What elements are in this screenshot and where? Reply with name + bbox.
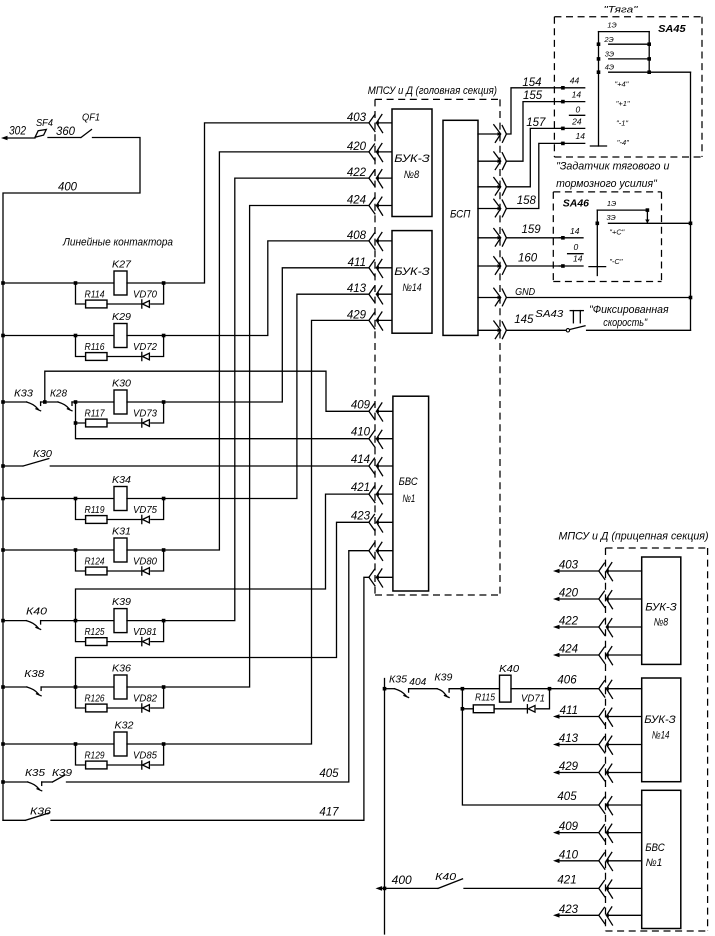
svg-text:414: 414 [351, 454, 370, 466]
connector X2:414 [369, 458, 375, 474]
diode VD80 [141, 567, 143, 575]
wire 404 [409, 688, 438, 690]
svg-text:№8: №8 [654, 617, 668, 629]
svg-text:R114: R114 [85, 290, 105, 301]
wire 413 [164, 294, 369, 498]
junction SA46 3Э / common vertical [689, 222, 693, 226]
contact K39 [53, 775, 66, 782]
SA45 right bar [648, 32, 650, 73]
svg-text:"+C": "+C" [609, 228, 624, 237]
connector X2:421 [369, 486, 375, 502]
svg-text:K31: K31 [112, 526, 131, 538]
connector X3:406 [599, 681, 605, 697]
svg-text:№1: №1 [646, 857, 663, 869]
resistor R126 [86, 704, 107, 712]
contactor coil K27 [114, 271, 127, 295]
svg-text:К30: К30 [33, 448, 52, 460]
dashed box МПСУ head bottom [375, 594, 500, 596]
SA46 common bar tick [589, 266, 606, 268]
svg-text:R125: R125 [85, 627, 105, 638]
contactor coil K30 [114, 390, 127, 414]
svg-text:302: 302 [9, 126, 27, 138]
node left of K29 coil [74, 334, 78, 338]
SA45 contact row 3Э [609, 58, 650, 60]
junction trailer bus / 400 row [383, 887, 387, 891]
svg-text:R126: R126 [85, 694, 105, 705]
svg-text:159: 159 [522, 224, 542, 236]
wire 157 [506, 128, 560, 186]
wire 403 [164, 123, 369, 283]
contact К40 (trailer) [438, 879, 462, 889]
wire БСП output 1 [478, 133, 498, 135]
wire 423 (trailer, box side) [607, 914, 642, 916]
parallel branch of K29 [76, 336, 86, 357]
connector X3:411 [599, 709, 605, 725]
contactor coil K29 [114, 324, 127, 348]
resistor R119 [86, 516, 107, 524]
svg-text:GND: GND [515, 286, 535, 298]
wire bus to K33 contact [3, 401, 27, 403]
svg-text:К39: К39 [52, 767, 72, 779]
svg-text:1Э: 1Э [607, 21, 616, 30]
wire 406 (trailer) [511, 688, 599, 690]
diode VD73 [141, 419, 143, 427]
wire 411 (trailer) [559, 716, 599, 718]
svg-text:№8: №8 [404, 169, 419, 181]
button SA43 [570, 310, 583, 312]
wire 405 [67, 551, 369, 782]
connector X2:409 [369, 403, 375, 419]
connector X3:410 [599, 853, 605, 869]
parallel branch of K36 [76, 687, 86, 708]
wire 421 (trailer) [464, 887, 599, 889]
wire 420 (trailer, box side) [607, 598, 642, 600]
SA46 contact row 1Э [597, 209, 647, 211]
resistor R116 [86, 353, 107, 361]
wire 421 [76, 494, 369, 620]
svg-text:157: 157 [526, 117, 546, 129]
diode VD82 [141, 704, 143, 712]
connector X1:420 [369, 144, 375, 160]
svg-text:VD82: VD82 [133, 694, 157, 705]
contactor coil K32 [114, 732, 127, 756]
svg-text:423: 423 [351, 510, 371, 522]
svg-text:К33: К33 [14, 388, 33, 400]
wire 158 [506, 143, 560, 208]
connector X3:420 [599, 591, 605, 607]
node right of K40 coil [548, 687, 552, 691]
svg-text:БСП: БСП [450, 209, 471, 221]
svg-text:"Тяга": "Тяга" [604, 5, 639, 16]
contact K30 [23, 459, 49, 467]
junction trailer bus / K35 row [383, 687, 387, 691]
connector X3:422 [599, 619, 605, 635]
parallel branch of K30 [76, 402, 86, 423]
svg-text:QF1: QF1 [82, 112, 100, 124]
wire 423 (trailer) [559, 914, 599, 916]
svg-text:411: 411 [348, 257, 366, 269]
wire 411 (trailer, box side) [607, 716, 642, 718]
svg-text:VD75: VD75 [133, 505, 157, 516]
SA45 common bar tick [590, 145, 606, 147]
junction bus/K29 row [1, 334, 5, 338]
breaker QF1 lever [81, 130, 92, 138]
wire 424 (trailer, box side) [607, 654, 642, 656]
connector БСП out 4 [494, 199, 501, 217]
svg-text:БУК-З: БУК-З [394, 153, 430, 165]
resistor R125 [86, 638, 107, 646]
svg-text:158: 158 [517, 195, 537, 207]
node left of K40 coil [461, 687, 465, 691]
svg-text:3Э: 3Э [605, 49, 614, 58]
svg-text:VD73: VD73 [133, 409, 157, 420]
wire БСП output 6 [478, 265, 498, 267]
connector X2 unlabeled a [369, 543, 375, 559]
connector X3:405 [599, 797, 605, 813]
svg-text:VD85: VD85 [133, 751, 157, 762]
wire БСП output 7 [478, 297, 498, 299]
svg-text:К36: К36 [30, 805, 51, 817]
svg-text:K32: K32 [115, 720, 134, 732]
wire bus to K31 [3, 549, 76, 551]
svg-text:К40: К40 [435, 871, 456, 883]
connector БСП out 3 [494, 178, 501, 196]
svg-text:424: 424 [559, 644, 578, 656]
svg-text:К39: К39 [434, 672, 452, 684]
SA46 right bar [646, 210, 648, 223]
switch SA46 dashed box [553, 191, 661, 193]
wire 410 [76, 423, 369, 439]
connector БСП out 2 [494, 152, 501, 170]
SA45 pin stubs [561, 87, 585, 89]
svg-text:К40: К40 [26, 606, 47, 618]
connector БСП out 8 [494, 321, 501, 339]
contact K28 [58, 402, 70, 409]
wire БСП output 3 [478, 186, 498, 188]
dashed box МПСУ head right [499, 99, 501, 595]
svg-text:400: 400 [392, 875, 413, 887]
svg-text:K30: K30 [112, 378, 131, 390]
node right of K34 coil [162, 497, 166, 501]
wire 422 (trailer) [559, 626, 599, 628]
connector X3:421 [599, 881, 605, 897]
svg-text:К28: К28 [50, 388, 67, 400]
svg-text:БУК-З: БУК-З [645, 601, 677, 613]
svg-text:2Э: 2Э [603, 35, 613, 44]
svg-text:422: 422 [559, 616, 579, 628]
junction bus/K31 row [1, 548, 5, 552]
wire 429 (trailer) [559, 772, 599, 774]
contact K40 [26, 621, 38, 628]
block БУК-З №14 (head) [392, 231, 432, 334]
connector X3:403 [599, 563, 605, 579]
connector X2 unlabeled b [369, 569, 375, 585]
svg-text:БУК-З: БУК-З [644, 714, 676, 726]
wire 409 [45, 371, 369, 411]
contact K36 [26, 813, 50, 821]
wire K33 to K28 [41, 401, 58, 403]
svg-text:"-1": "-1" [616, 118, 628, 127]
connector X2:423 [369, 514, 375, 530]
svg-text:44: 44 [570, 76, 580, 86]
junction bus/K27 row [1, 281, 5, 285]
wire 413 (trailer, box side) [607, 744, 642, 746]
connector X1:422 [369, 170, 375, 186]
junction K30 branch / wire 410 [74, 421, 78, 425]
svg-text:K40: K40 [499, 663, 519, 675]
wire 410 (trailer, box side) [607, 860, 642, 862]
breaker SF4 [35, 130, 46, 138]
junction bus/K36 row [1, 685, 5, 689]
wire 145 [506, 329, 566, 331]
svg-text:№14: №14 [402, 282, 421, 294]
svg-text:154: 154 [522, 77, 541, 89]
diode VD85 [141, 761, 143, 769]
parallel branch of K34 [76, 499, 86, 520]
wire 421 (trailer, box side) [607, 887, 642, 889]
svg-text:SA45: SA45 [658, 24, 686, 35]
wire 411 [164, 268, 369, 402]
junction bus/K32 row [1, 742, 5, 746]
svg-text:24: 24 [571, 117, 582, 127]
svg-text:410: 410 [559, 849, 579, 861]
svg-text:0: 0 [576, 105, 581, 115]
connector БСП out 7 [494, 288, 501, 306]
svg-text:145: 145 [514, 314, 534, 326]
dashed box МПСУ trailer bottom [606, 930, 708, 932]
connector X1:411 [369, 260, 375, 276]
svg-text:429: 429 [347, 309, 367, 321]
dashed box МПСУ trailer top [606, 547, 708, 549]
svg-text:БВС: БВС [645, 842, 665, 854]
connector X3:409 [599, 825, 605, 841]
wire 429 [164, 320, 369, 744]
svg-text:VD81: VD81 [133, 627, 157, 638]
svg-text:14: 14 [572, 90, 582, 100]
diode VD72 [141, 352, 143, 360]
connector БСП out 6 [494, 257, 501, 275]
svg-text:0: 0 [574, 242, 579, 252]
svg-text:K27: K27 [112, 259, 132, 271]
contactor coil K39 [114, 609, 127, 633]
contact К39 (trailer) [437, 689, 446, 696]
connector X3:429 [599, 765, 605, 781]
svg-text:"Задатчик тягового и: "Задатчик тягового и [556, 161, 669, 173]
node right of K29 coil [162, 334, 166, 338]
connector X1:408 [369, 233, 375, 249]
svg-text:VD72: VD72 [133, 342, 157, 353]
parallel branch of K40 [462, 689, 473, 709]
junction bus/405 row [1, 780, 5, 784]
node left of K30 coil [74, 400, 78, 404]
wire 422 (trailer, box side) [607, 626, 642, 628]
wire 403 (trailer, box side) [607, 570, 642, 572]
wire 413 (trailer) [559, 744, 599, 746]
node right of K36 coil [162, 685, 166, 689]
contact K38 [27, 687, 39, 694]
node right of K39 coil [162, 619, 166, 623]
svg-text:БВС: БВС [399, 476, 418, 488]
diode VD70 [141, 300, 143, 308]
svg-text:"-C": "-C" [609, 257, 623, 266]
node left of K31 coil [74, 548, 78, 552]
wire 405 (trailer) [462, 709, 598, 805]
svg-text:424: 424 [347, 195, 366, 207]
svg-text:423: 423 [559, 904, 579, 916]
diode VD75 [141, 515, 143, 523]
svg-text:155: 155 [523, 90, 543, 102]
svg-text:14: 14 [570, 226, 580, 236]
junction bus/K30 row [1, 400, 5, 404]
dashed box МПСУ head top [375, 98, 500, 100]
node left of K34 coil [74, 497, 78, 501]
svg-text:МПСУ и Д (прицепная секция): МПСУ и Д (прицепная секция) [559, 531, 709, 543]
wire bus to K29 [3, 335, 76, 337]
wire bus to K32 [3, 743, 76, 745]
svg-text:SA43: SA43 [535, 308, 563, 320]
svg-text:403: 403 [347, 112, 367, 124]
wire БСП output 4 [478, 208, 498, 210]
svg-text:K34: K34 [112, 474, 131, 486]
svg-text:"-4": "-4" [617, 138, 629, 147]
block БВС №1 (trailer) [642, 790, 681, 928]
svg-text:408: 408 [347, 230, 367, 242]
svg-text:413: 413 [347, 283, 367, 295]
svg-text:14: 14 [576, 131, 586, 141]
wire 417 [51, 577, 369, 820]
svg-text:K29: K29 [112, 311, 131, 323]
block БСП [443, 120, 478, 335]
contact K35 [28, 782, 40, 789]
SA43 lever [570, 326, 585, 330]
node right of K32 coil [162, 742, 166, 746]
wire 408 [164, 241, 369, 336]
contactor coil K31 [114, 538, 127, 562]
trailer bus [384, 679, 386, 935]
svg-text:"+1": "+1" [616, 99, 630, 108]
svg-text:R116: R116 [85, 342, 105, 353]
junction GND / common vertical [689, 296, 693, 300]
svg-text:421: 421 [557, 874, 576, 886]
resistor R124 [86, 567, 107, 575]
parallel branch of K27 [76, 283, 86, 304]
svg-text:SF4: SF4 [36, 117, 53, 129]
resistor R114 [86, 300, 107, 308]
node left of K36 coil [74, 685, 78, 689]
svg-text:413: 413 [559, 733, 579, 745]
svg-text:429: 429 [559, 761, 579, 773]
svg-text:409: 409 [351, 399, 371, 411]
svg-text:160: 160 [518, 253, 538, 265]
switch SA45 dashed box [554, 16, 702, 18]
diode VD81 [141, 638, 143, 646]
svg-text:404: 404 [409, 676, 426, 688]
contact К35 (trailer) [395, 689, 407, 696]
svg-text:Линейные контактора: Линейные контактора [62, 237, 173, 249]
block БВС №1 (head) [393, 396, 429, 591]
wire bus to K27 [3, 282, 76, 284]
contact K33 [27, 402, 38, 409]
SA45 contact row 2Э [609, 43, 650, 45]
svg-text:R119: R119 [85, 505, 105, 516]
node right of K30 coil [162, 400, 166, 404]
wire 409 (trailer) [559, 832, 599, 834]
resistor R117 [86, 419, 107, 427]
wire bus to K35 contact [3, 781, 28, 783]
dashed box МПСУ head left [374, 99, 376, 595]
svg-text:SA46: SA46 [563, 199, 590, 210]
svg-text:"+4": "+4" [615, 80, 629, 89]
connector X3:413 [599, 737, 605, 753]
svg-text:R124: R124 [85, 557, 105, 568]
wire 406 (trailer, box side) [607, 688, 642, 690]
wire K35 to K39 [42, 781, 52, 783]
node right of K27 coil [162, 281, 166, 285]
SA46 pin stubs [559, 237, 583, 239]
svg-text:VD80: VD80 [133, 557, 157, 568]
svg-text:406: 406 [557, 675, 577, 687]
connector X1:413 [369, 286, 375, 302]
svg-text:R117: R117 [85, 409, 105, 420]
block БУК-З №8 (trailer) [642, 557, 681, 664]
contactor coil K36 [114, 675, 127, 699]
block БУК-З №14 (trailer) [642, 678, 681, 782]
svg-text:420: 420 [559, 588, 579, 600]
wire 360 [48, 137, 81, 139]
wire 405 (trailer, box side) [607, 804, 642, 806]
node left of K39 coil [74, 619, 78, 623]
svg-text:422: 422 [347, 167, 367, 179]
resistor R115 [473, 705, 494, 713]
wire 414 [50, 465, 369, 467]
wire БСП output 5 [478, 237, 498, 239]
svg-text:БУК-З: БУК-З [394, 266, 430, 278]
wire БСП output 2 [478, 160, 498, 162]
wire 155 [506, 102, 560, 162]
parallel branch of K39 [76, 621, 86, 642]
wire БСП output 8 [478, 329, 498, 331]
wire 154 [506, 88, 560, 134]
svg-text:360: 360 [56, 126, 76, 138]
wire 422 [164, 178, 369, 620]
svg-text:К35: К35 [389, 674, 407, 686]
svg-text:МПСУ и Д (головная секция): МПСУ и Д (головная секция) [368, 85, 498, 97]
svg-text:VD71: VD71 [521, 694, 545, 705]
contactor coil K40 [500, 675, 512, 702]
wire 424 [164, 206, 369, 688]
wire 420 (trailer) [559, 598, 599, 600]
contactor coil K34 [114, 487, 127, 511]
wire 159 [506, 237, 560, 239]
svg-text:405: 405 [319, 768, 339, 780]
wire bus to K40 contact [3, 620, 26, 622]
connector БСП out 1 [494, 125, 501, 143]
svg-text:400: 400 [58, 182, 78, 194]
svg-text:R115: R115 [475, 692, 495, 703]
SA45 contact row 1Э [599, 31, 650, 33]
svg-text:VD70: VD70 [133, 290, 157, 301]
svg-text:4Э: 4Э [605, 62, 614, 71]
wire 410 (trailer) [559, 860, 599, 862]
connector X3:423 [599, 907, 605, 923]
wire GND [506, 297, 690, 299]
wire 400 and left bus [3, 138, 140, 821]
svg-text:14: 14 [573, 253, 583, 263]
wire bus to K36 contact [3, 819, 25, 821]
svg-text:3Э: 3Э [606, 213, 615, 222]
SA45 common bar [598, 32, 600, 146]
svg-text:№1: №1 [402, 493, 415, 505]
